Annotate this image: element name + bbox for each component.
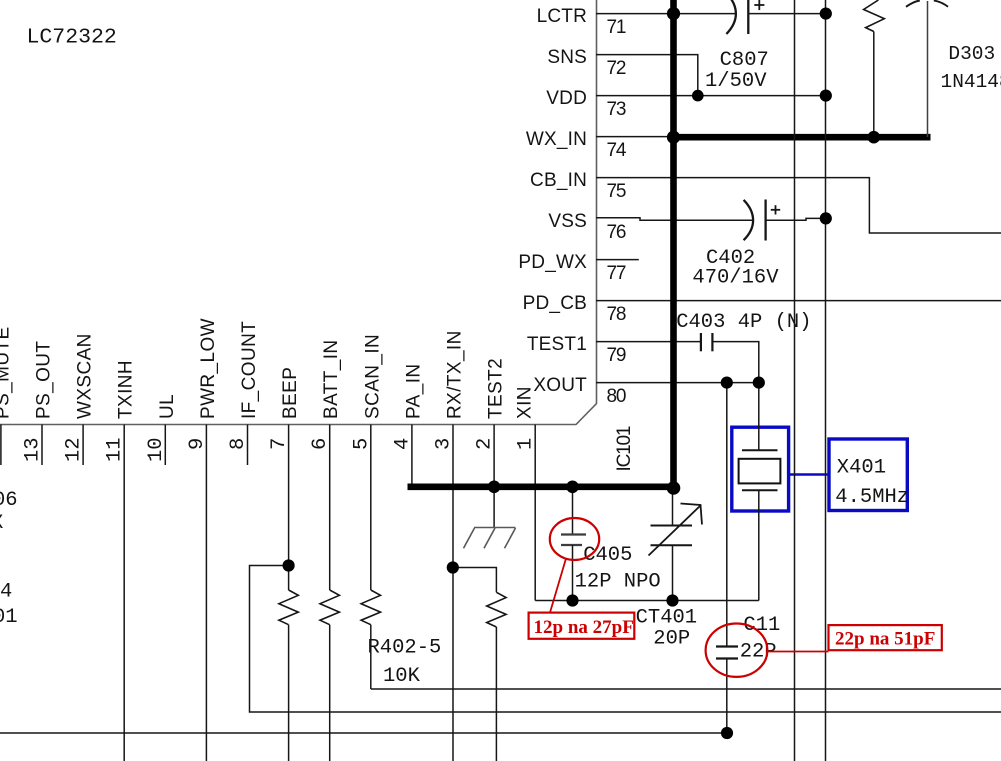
svg-text:SCAN_IN: SCAN_IN: [362, 334, 383, 419]
svg-text:71: 71: [607, 17, 626, 38]
svg-text:PS_OUT: PS_OUT: [34, 341, 55, 419]
pin 7 (BEEP): [288, 425, 290, 591]
pin 11 (TXINH): [123, 425, 125, 761]
junction SNS jog / VDD: [692, 90, 704, 102]
svg-text:4: 4: [0, 580, 12, 603]
svg-text:BEEP: BEEP: [280, 367, 301, 419]
junction VDD / x825: [820, 90, 832, 102]
svg-text:5: 5: [350, 438, 373, 450]
wire rail y=689 (from R404 to right edge): [371, 688, 1001, 690]
resistor R405 (pin3 RX/TX_IN): [487, 592, 506, 627]
svg-text:75: 75: [607, 181, 626, 202]
svg-text:14: 14: [0, 437, 3, 462]
svg-text:7: 7: [268, 438, 291, 450]
junction pin3 / wire: [447, 561, 459, 573]
capacitor C403 (series on TEST1 net): [700, 333, 702, 351]
X401 label box (blue): [829, 439, 907, 511]
annotation circle on C11: [706, 624, 768, 677]
capacitor C11 (XOUT net to bottom line): [726, 383, 728, 647]
junction pin2 / ground bus: [488, 481, 501, 494]
pin 6 (BATT_IN): [329, 425, 331, 591]
svg-text:4.5MHz: 4.5MHz: [835, 486, 909, 509]
thick net y=137 (horizontal, to D303/resistor): [670, 134, 930, 141]
svg-text:22p na 51pF: 22p na 51pF: [835, 629, 935, 650]
svg-text:78: 78: [607, 304, 626, 325]
pin 72 wire (SNS jog down to VDD net): [596, 55, 698, 96]
svg-text:WXSCAN: WXSCAN: [75, 333, 96, 419]
blue leader from crystal to label box: [789, 473, 829, 476]
svg-text:10K: 10K: [383, 665, 421, 688]
wire rail y=733 (left edge to C11 bottom): [0, 732, 727, 734]
svg-text:1: 1: [515, 438, 538, 450]
svg-text:CB_IN: CB_IN: [530, 170, 587, 191]
svg-text:XIN: XIN: [515, 386, 536, 419]
svg-text:SNS: SNS: [547, 47, 587, 68]
junction VSS / x825: [820, 212, 832, 224]
diode D303 (partial, cut at top): [906, 1, 920, 7]
svg-text:13: 13: [22, 437, 45, 462]
vertical net x=794.5 (full height): [794, 0, 796, 761]
svg-text:12p na 27pF: 12p na 27pF: [534, 617, 634, 638]
svg-text:TEST1: TEST1: [527, 334, 587, 355]
annotation leader C11: [767, 651, 828, 653]
svg-text:LCTR: LCTR: [537, 6, 587, 27]
resistor R403 (pin6 BATT_IN): [320, 590, 339, 625]
svg-text:79: 79: [607, 345, 626, 366]
svg-text:TXINH: TXINH: [116, 360, 137, 419]
IC U-IC101 outline (right edge, chamfer, bottom edge): [0, 0, 597, 425]
svg-text:6: 6: [309, 438, 332, 450]
junction resistor / thick net y137: [868, 131, 881, 144]
capacitor C402 (polarized, on VSS net): [744, 200, 754, 240]
junction C405 bottom / XIN wire: [566, 594, 578, 606]
svg-text:D303: D303: [948, 43, 995, 65]
pin 2 (TEST2): [493, 425, 495, 485]
junction pin71 net / x825: [820, 8, 832, 20]
thick power bus (vertical): [670, 0, 677, 490]
pin 12 (WXSCAN): [82, 425, 84, 466]
annotation box 12p na 27pF: [529, 613, 635, 639]
svg-text:470/16V: 470/16V: [692, 267, 779, 290]
wire pin3 junction to R405: [453, 568, 497, 593]
svg-text:PS_MUTE: PS_MUTE: [0, 326, 13, 419]
svg-text:73: 73: [607, 99, 626, 120]
crystal X401 (blue outline box): [732, 427, 789, 511]
svg-text:12: 12: [63, 437, 86, 462]
svg-text:PA_IN: PA_IN: [403, 363, 424, 419]
svg-text:9: 9: [186, 438, 209, 450]
pin 75 wire CB_IN (right, down, right to edge): [596, 178, 1001, 233]
svg-text:12P NPO: 12P NPO: [575, 571, 661, 594]
svg-text:X401: X401: [837, 457, 886, 480]
crystal X401 symbol: [758, 383, 760, 451]
resistor (top right, unlabeled): [864, 0, 885, 32]
svg-text:06: 06: [0, 489, 18, 512]
svg-text:8: 8: [227, 438, 250, 450]
pin 76 wire (VSS to C402): [596, 218, 753, 221]
pin 79 wire TEST1 (to C403): [596, 341, 701, 343]
svg-text:WX_IN: WX_IN: [526, 129, 587, 150]
junction C11 bottom / y733 rail: [721, 727, 733, 739]
pin 3 (RX/TX_IN): [452, 425, 454, 761]
pin 78 wire PD_CB (to right edge): [596, 300, 1001, 302]
capacitor C807 (polarized, on LCTR net): [726, 0, 736, 34]
svg-text:IF_COUNT: IF_COUNT: [239, 321, 260, 419]
svg-text:72: 72: [607, 58, 626, 79]
thick ground bus y=487 (horizontal): [408, 483, 677, 490]
annotation circle on C405: [550, 518, 599, 560]
svg-text:20P: 20P: [653, 628, 690, 651]
pin 77 stub (unconnected): [596, 259, 639, 261]
svg-text:IC101: IC101: [614, 426, 635, 471]
svg-text:PWR_LOW: PWR_LOW: [198, 318, 219, 419]
annotation leader C405: [550, 559, 566, 613]
svg-text:76: 76: [607, 222, 626, 243]
svg-text:VSS: VSS: [548, 211, 587, 232]
svg-text:80: 80: [607, 386, 626, 407]
svg-text:R402-5: R402-5: [368, 637, 442, 660]
svg-text:CT401: CT401: [636, 607, 698, 630]
pin 9 (PWR_LOW): [205, 425, 207, 761]
junction bus corner: [667, 481, 681, 495]
pin 10 (UL): [164, 425, 166, 466]
junction CT401 bottom / XIN wire: [666, 594, 678, 606]
svg-text:1/50V: 1/50V: [705, 70, 767, 93]
svg-text:11: 11: [104, 437, 127, 462]
junction pin7 / wire: [283, 559, 295, 571]
svg-text:PD_CB: PD_CB: [523, 293, 587, 314]
svg-text:XOUT: XOUT: [533, 375, 587, 396]
svg-text:C807: C807: [720, 49, 769, 72]
pin 71 wire (LCTR net segment to C807): [596, 13, 736, 15]
svg-text:01: 01: [0, 606, 18, 629]
ground (chassis) symbol at pin 2: [493, 490, 495, 528]
svg-text:BATT_IN: BATT_IN: [321, 339, 342, 419]
svg-text:RX/TX_IN: RX/TX_IN: [445, 330, 466, 419]
svg-text:10: 10: [145, 437, 168, 462]
resistor R404 (pin5 SCAN_IN): [361, 590, 380, 625]
svg-text:77: 77: [607, 263, 626, 284]
vertical net x=825.5 (full height): [825, 0, 827, 761]
svg-text:VDD: VDD: [546, 88, 587, 109]
svg-text:PD_WX: PD_WX: [518, 252, 587, 273]
svg-text:4: 4: [391, 438, 414, 450]
wire pin7 junction left and down to y=712 rail: [250, 566, 1001, 713]
junction pin80 / C11: [721, 377, 733, 389]
junction bus/pin71: [667, 7, 680, 20]
pin 14 (PS_MUTE): [0, 425, 2, 466]
svg-text:UL: UL: [157, 394, 178, 419]
pin 13 (PS_OUT): [41, 425, 43, 466]
wire XIN net y=600.5 (pin1 to C405/CT401/crystal): [535, 600, 759, 602]
svg-text:2: 2: [474, 438, 497, 450]
svg-text:3: 3: [433, 438, 456, 450]
annotation box 22p na 51pF: [829, 625, 942, 650]
capacitor C405 (XIN net to ground line): [572, 490, 574, 535]
svg-text:C403 4P (N): C403 4P (N): [676, 311, 811, 334]
svg-text:X: X: [0, 512, 3, 535]
pin 5 (SCAN_IN): [370, 425, 372, 591]
trimmer capacitor CT401: [672, 491, 674, 526]
pin 80 wire XOUT: [596, 382, 759, 384]
junction pin80 / crystal: [753, 377, 765, 389]
svg-text:TEST2: TEST2: [486, 358, 507, 419]
pin 73 wire (VDD rail): [596, 95, 826, 97]
pin 74 wire (to thick bus): [596, 136, 671, 138]
junction C405 / ground bus: [566, 481, 579, 494]
svg-text:LC72322: LC72322: [27, 26, 117, 50]
pin 8 (IF_COUNT): [247, 425, 249, 466]
svg-text:74: 74: [607, 140, 627, 161]
pin 1 (XIN): [534, 425, 536, 601]
svg-text:1N4148: 1N4148: [941, 71, 1001, 93]
junction bus / thick net y137: [667, 131, 680, 144]
pin 4 (PA_IN): [411, 425, 413, 485]
resistor R402 (pin7 BEEP): [279, 590, 298, 625]
